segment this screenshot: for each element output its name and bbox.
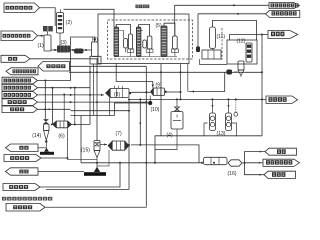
RTO column A1 hatched	[114, 27, 119, 57]
adsorber column A	[210, 113, 216, 131]
banner row5: VOCs containing	[2, 106, 38, 113]
svg-text:(10): (10)	[151, 107, 160, 113]
svg-text:(7): (7)	[116, 131, 122, 137]
base under B1	[127, 49, 134, 52]
wire organic waste line y66	[69, 65, 146, 67]
banner row3: organic gas high conc	[2, 92, 38, 99]
bottom bus inside box	[114, 56, 177, 58]
vessel 15	[94, 141, 100, 151]
bag filter column inside 12 dark bands	[246, 43, 252, 62]
wire vessel15 drain to flare	[96, 158, 98, 168]
wire riser x187.8 from box bottom	[187, 64, 189, 92]
wire bus down to drum6 feed	[52, 88, 54, 125]
column B3	[173, 36, 178, 49]
burner bar small	[40, 152, 54, 155]
wires group2	[139, 25, 150, 37]
wire long vertical x97 to vessel15	[96, 59, 98, 141]
banner row4: natural gas no3	[2, 99, 38, 106]
banner solvent tank	[6, 204, 45, 212]
wire bus x74.8 row2 to drum6 outlet	[74, 88, 76, 125]
wire pump10 left then down	[115, 103, 149, 116]
banner: particulate VOCs gas	[1, 31, 38, 41]
flame triangle large	[94, 167, 100, 172]
banner R7 makeup water	[264, 171, 296, 178]
wire y110.7 drain	[71, 110, 129, 112]
wire row1 to riser	[38, 80, 71, 82]
wire steam2 to flare	[38, 171, 84, 173]
wire riser x129 down to recovery	[128, 99, 130, 189]
svg-text:(2): (2)	[66, 20, 72, 26]
drum 7	[108, 141, 112, 150]
wire drum6 outlet right	[72, 123, 91, 125]
wire pump12a down then left into incinerator return	[189, 72, 225, 92]
wire bus x64 row3 to drum6 top	[63, 95, 65, 121]
tank bottom drain	[155, 129, 177, 150]
wire adsorber frame drop	[236, 135, 238, 137]
pump 10	[148, 101, 152, 105]
wire bus x81 down to recovery line	[80, 116, 82, 163]
banner R5 steam	[265, 148, 297, 155]
wire column2 top to incinerator feed	[64, 9, 115, 27]
banner row2: particulate organic gas	[2, 84, 38, 91]
svg-text:(4): (4)	[92, 37, 98, 43]
wire row4 long to pump10	[38, 101, 148, 103]
wire riser x161	[160, 64, 162, 136]
wire furnace to unit12 underline	[200, 59, 227, 65]
box under vessel4	[90, 56, 101, 64]
svg-text:(16): (16)	[228, 171, 237, 177]
drum 9	[151, 88, 154, 96]
feed into drum9 top	[116, 64, 153, 88]
filter boxes hatched above vessel1	[43, 26, 48, 31]
valve on tank top	[175, 107, 180, 111]
banner: organic waste (left-pointing)	[38, 62, 70, 72]
wire flue recirc vertical x262	[261, 35, 263, 136]
funnel vessel under 12	[238, 61, 244, 70]
svg-text:(12): (12)	[237, 39, 246, 45]
wire R3 from unit12	[230, 35, 268, 41]
column 11	[210, 27, 216, 49]
wire row2	[38, 87, 91, 89]
wire drop from vessel4 box	[93, 64, 95, 116]
base under B3	[171, 49, 178, 52]
valve bowtie over filter14	[43, 119, 49, 124]
drum 3 dark hatched	[57, 46, 70, 53]
banner steam2 left-pointing	[6, 168, 39, 175]
wire drum7 outlet to receiver line	[131, 145, 199, 163]
banner R3 flue gas	[268, 31, 298, 39]
wire ng1	[41, 157, 67, 159]
adsorber column B	[226, 113, 232, 131]
long process wire y72	[69, 71, 262, 73]
gauge dotted drop	[235, 100, 237, 112]
main recovery line y162.8 to drum16	[81, 162, 204, 164]
wire ng3 to riser	[40, 163, 120, 187]
banner steam1 left-pointing	[6, 144, 39, 152]
caption text VOCs treatment unit	[2, 197, 6, 201]
wire into vessel 1	[38, 35, 45, 37]
svg-text:(8): (8)	[114, 92, 120, 98]
wire B3 riser to flue banner R1	[175, 5, 269, 36]
banner: exhaust treatment unit (top-left)	[4, 3, 40, 13]
blower dark drum	[74, 49, 84, 54]
svg-text:(14): (14)	[32, 133, 41, 139]
wire drum8 to drum9	[131, 91, 151, 93]
incinerator unit title text	[136, 5, 139, 9]
banner row1: organic gas low conc	[2, 77, 38, 84]
filter 14 vessel	[44, 124, 49, 131]
wire WHB return y135.8	[155, 136, 262, 163]
drum 16 long	[204, 157, 228, 164]
burner flare bar	[84, 172, 106, 176]
wire from top-left banner	[40, 8, 56, 26]
column B1	[128, 34, 132, 49]
wire column2 bottom down	[59, 33, 61, 46]
wires group1	[116, 25, 130, 35]
adsorber side stub right	[232, 123, 237, 136]
wire condensate drop x146.3	[145, 66, 147, 205]
vessel 1 quench	[44, 35, 51, 51]
dashed boundary line between unit 11 and 12	[221, 28, 223, 60]
wire bus x90	[89, 66, 91, 124]
banner natural gas 3	[3, 184, 40, 191]
solvent tank with level line	[176, 108, 178, 112]
svg-text:(3): (3)	[61, 40, 67, 46]
wire waste gas to incinerator box	[30, 58, 98, 60]
svg-text:(15): (15)	[81, 148, 90, 154]
wire column11 top to unit12	[213, 21, 257, 41]
pump 12a dark	[227, 70, 233, 75]
incinerator unit solid box	[98, 14, 189, 64]
banner natural gas 1	[4, 155, 41, 162]
wire solvent to condensate riser	[45, 205, 146, 207]
svg-text:(1): (1)	[38, 43, 44, 49]
base under B2	[146, 49, 153, 52]
drum 6	[53, 121, 57, 128]
vent ticks above drum8	[114, 86, 116, 89]
wire riser x180.5	[180, 64, 182, 100]
main wire y50 vessel1 to drum3 to vessel4	[51, 49, 92, 51]
filter14 cone and drain	[44, 131, 49, 141]
svg-text:(11): (11)	[217, 34, 226, 40]
wire R2 line down to pump	[197, 14, 199, 47]
pump 11a dark	[196, 47, 200, 53]
exchanger C2	[143, 40, 147, 48]
drum 8 condenser	[106, 89, 111, 98]
wire bus down to filter 14	[44, 81, 46, 120]
unit 12 box	[227, 40, 257, 64]
exchanger C1	[124, 39, 128, 49]
vessel 4 column	[92, 42, 99, 57]
wire vessel15 top to drum7	[100, 144, 107, 146]
wire drum8 bottom drain	[109, 98, 111, 116]
wire steam1	[38, 147, 47, 149]
wire row3 into drum8	[38, 94, 105, 96]
svg-text:(6): (6)	[59, 134, 65, 140]
wire riser x140.3 with down arrow	[139, 99, 141, 144]
wire column2 top stub	[60, 9, 62, 12]
RTO column A3 hatched wide	[161, 26, 167, 57]
wire drum6 feed	[51, 123, 53, 125]
banner R1 flue gas with CO2	[269, 3, 300, 9]
recovery return line lower	[46, 189, 129, 191]
RTO column A2 hatched	[136, 27, 141, 57]
wire drum9 outlet to riser	[167, 91, 181, 93]
wire 16 branches to right banners	[242, 162, 245, 164]
incinerator unit dashed box	[108, 20, 193, 59]
banner: waste gas	[1, 55, 30, 62]
wire tank stub to adsorber line	[176, 99, 178, 107]
banner R2 condensate return (left tip)	[266, 10, 300, 17]
furnace box with dividers	[202, 50, 221, 59]
adsorber line y99.4	[129, 98, 266, 100]
adsorber top stubs	[212, 99, 214, 113]
banner R6 circulating water	[263, 159, 300, 166]
wire R2	[198, 13, 266, 15]
wires group3	[164, 23, 175, 36]
wire funnel to pump	[240, 76, 242, 78]
column B2	[147, 36, 152, 49]
wire row5	[38, 108, 71, 110]
flame triangle small	[44, 148, 49, 152]
column 2 scrubber hatched	[57, 13, 64, 34]
riser x70.6 to vessel4 feed	[71, 37, 95, 81]
adsorber left bracket to return line	[204, 123, 208, 136]
wire column11 stub	[212, 49, 214, 51]
wire drum7 underside	[97, 150, 109, 166]
wire drum6 bottom down right	[67, 128, 97, 159]
banner R4 purified flue gas	[266, 96, 298, 103]
banner: particulate organic gas (left-pointing)	[6, 68, 38, 75]
small drum right of 16	[228, 160, 242, 166]
